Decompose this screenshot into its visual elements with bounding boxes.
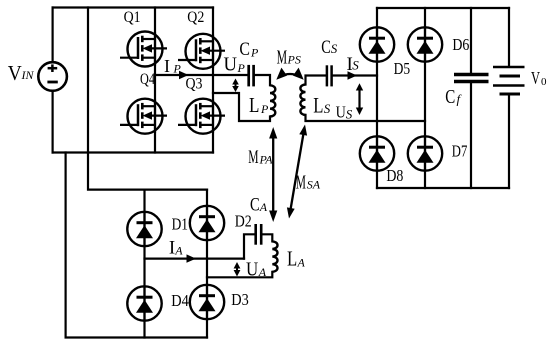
inductor LP	[270, 85, 275, 116]
svg-text:D7: D7	[452, 142, 468, 161]
label MPS	[277, 46, 301, 68]
diode D4	[127, 286, 189, 320]
svg-text:A: A	[174, 244, 183, 258]
wire bridge left side	[87, 8, 89, 153]
svg-text:S: S	[324, 101, 331, 116]
wire lower mid rail	[145, 258, 245, 260]
label CS	[321, 37, 338, 58]
svg-text:P: P	[260, 102, 269, 116]
wire Cf column	[470, 8, 472, 188]
svg-text:I: I	[164, 56, 170, 76]
label VIN	[8, 61, 35, 85]
transistor Q1	[120, 9, 167, 67]
svg-text:D6: D6	[452, 35, 469, 54]
svg-text:A: A	[297, 256, 306, 270]
wire CP to LP top	[255, 75, 270, 85]
diode D2	[190, 206, 252, 240]
svg-text:S: S	[346, 107, 353, 122]
diode D8	[360, 136, 404, 185]
svg-text:D1: D1	[172, 215, 188, 234]
svg-text:C: C	[250, 195, 260, 216]
wire bridge mid rail to CP	[155, 74, 248, 76]
label LS	[313, 93, 331, 118]
label IP with current arrow	[164, 56, 189, 79]
coupling arrow MSA	[287, 125, 307, 219]
wire battery column	[508, 8, 510, 188]
svg-text:Q2: Q2	[187, 9, 204, 26]
label IA with current arrow	[169, 238, 196, 263]
svg-text:V: V	[8, 61, 22, 85]
svg-text:A: A	[258, 265, 267, 279]
wire right leg Q2-Q3	[212, 8, 214, 153]
label IS with current arrow	[347, 54, 360, 80]
svg-text:Q3: Q3	[186, 75, 203, 92]
svg-text:0: 0	[541, 76, 547, 88]
wire LA bottom return	[207, 272, 272, 278]
label MSA	[296, 171, 321, 193]
wire rectifier bottom rail	[377, 187, 509, 189]
svg-text:M: M	[248, 147, 258, 168]
transistor Q2	[178, 9, 225, 69]
svg-text:P: P	[237, 61, 246, 75]
wire CS to rectifier	[333, 74, 377, 76]
svg-text:V: V	[531, 68, 540, 88]
svg-text:IN: IN	[21, 68, 35, 82]
diode D7	[408, 136, 468, 170]
wire lower bridge top feed	[88, 153, 207, 190]
svg-text:M: M	[277, 46, 288, 68]
wire left leg Q1-Q4	[154, 8, 156, 153]
svg-text:SA: SA	[307, 178, 321, 192]
label MPA	[248, 147, 273, 168]
voltage source VIN	[38, 62, 67, 91]
diode D5	[360, 27, 410, 78]
svg-text:P: P	[250, 46, 259, 60]
svg-text:L: L	[249, 93, 259, 117]
svg-text:C: C	[321, 37, 331, 58]
wire top rail (VIN+ to Q2 drain)	[53, 6, 213, 8]
svg-text:U: U	[246, 259, 259, 281]
svg-text:L: L	[287, 247, 297, 271]
coupling arrow MPA	[269, 127, 277, 222]
svg-text:PA: PA	[259, 153, 274, 167]
wire rectifier left column D5-D8	[376, 8, 378, 188]
diode D1	[127, 212, 188, 246]
inductor LA	[272, 241, 277, 271]
label LP	[249, 93, 269, 117]
wire bottom rail upper bridge	[53, 151, 213, 153]
label UP with voltage arrow	[224, 54, 246, 93]
capacitor CP	[249, 65, 254, 87]
svg-text:D8: D8	[386, 166, 403, 185]
label US with voltage arrow	[336, 83, 364, 121]
diode D3	[190, 285, 249, 319]
svg-text:PS: PS	[287, 53, 301, 67]
battery V0	[493, 67, 525, 94]
svg-text:C: C	[445, 86, 455, 108]
svg-text:Q1: Q1	[124, 9, 141, 26]
wire lower right leg D2-D3	[206, 190, 208, 338]
svg-text:Q4: Q4	[140, 71, 155, 88]
svg-text:L: L	[313, 93, 323, 118]
svg-text:D3: D3	[231, 290, 249, 309]
svg-text:M: M	[296, 171, 306, 193]
svg-text:D5: D5	[394, 59, 411, 78]
svg-text:A: A	[259, 200, 268, 214]
wire LP bottom return to right leg	[213, 93, 270, 121]
wire LS bottom to rectifier cross rail	[306, 115, 426, 121]
wire VIN bottom lead	[51, 91, 53, 153]
capacitor Cf	[454, 75, 489, 82]
wire lower left leg D1-D4	[143, 190, 145, 338]
wire LS top to CS	[306, 76, 326, 85]
capacitor CS	[327, 65, 332, 86]
svg-text:S: S	[352, 58, 359, 73]
label LA	[287, 247, 306, 271]
coupling arrow MPS	[276, 68, 303, 80]
capacitor CA	[256, 224, 262, 245]
wire CA to LA top	[262, 234, 272, 241]
wire rectifier right column D6-D7	[424, 8, 426, 188]
label Cf	[445, 86, 462, 108]
wire lower-left feed	[66, 153, 207, 338]
diode D6	[408, 27, 470, 61]
wire VIN top lead	[51, 8, 53, 63]
svg-text:S: S	[331, 41, 338, 56]
svg-text:D4: D4	[171, 291, 189, 310]
svg-text:C: C	[239, 39, 250, 60]
svg-text:U: U	[224, 54, 238, 76]
label V0	[531, 68, 547, 88]
transistor Q4	[120, 71, 167, 134]
wire riser to CA	[244, 234, 255, 258]
wire rectifier top rail	[377, 7, 509, 9]
inductor LS	[300, 85, 305, 115]
label CP	[239, 39, 259, 60]
svg-text:U: U	[336, 103, 346, 122]
transistor Q3	[178, 75, 225, 133]
label CA	[250, 195, 268, 216]
label UA with voltage arrow	[234, 259, 267, 281]
